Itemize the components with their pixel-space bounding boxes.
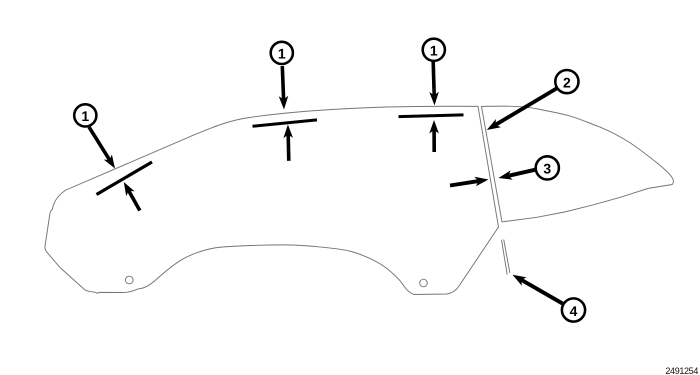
left arrow at divider (3) [450,177,489,187]
up arrow at mark 1b [283,125,293,161]
balloon 3 [536,156,559,179]
svg-text:1: 1 [278,46,286,62]
svg-text:1: 1 [430,43,438,59]
arrow from balloon 1b [279,66,289,110]
balloon 4 [562,298,585,321]
svg-text:2: 2 [563,74,571,90]
up arrow at mark 1a [124,182,140,211]
arrow from balloon 4 [513,275,563,304]
measurement mark 1b [253,120,318,126]
svg-text:1: 1 [81,108,89,124]
door glass outline [45,106,499,294]
balloon 1c [423,39,445,61]
arrow from balloon 2 [487,89,557,131]
svg-text:3: 3 [543,161,551,177]
arrow from balloon 3 [499,170,535,180]
run channel strip below junction [502,240,508,275]
balloon 2 [555,70,578,93]
measurement mark 1c [399,115,464,117]
hole right [420,279,428,287]
hole left [126,276,134,284]
balloon 1a [74,104,96,126]
quarter glass [482,106,674,222]
arrow from balloon 1c [429,62,439,105]
part number 2491254 [665,366,698,375]
arrow from balloon 1a [89,127,115,169]
measurement mark 1a [97,162,153,195]
up arrow at mark 1c [429,120,439,152]
svg-text:4: 4 [570,303,578,319]
balloon 1b [271,42,293,64]
